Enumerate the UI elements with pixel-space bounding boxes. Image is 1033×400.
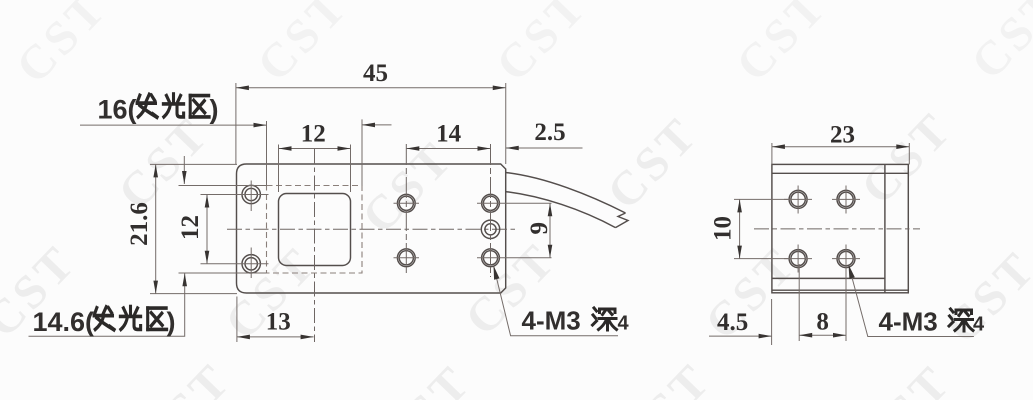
right column centerline <box>490 144 492 277</box>
right view body <box>772 164 908 292</box>
dimension 16(发光区) <box>80 94 392 185</box>
svg-text:CST: CST <box>486 0 597 92</box>
dimension 2.5 <box>506 119 583 150</box>
right view M3 hole bottom-left <box>784 245 812 273</box>
M3 hole middle column top <box>394 194 420 212</box>
dimension 13 <box>237 297 314 343</box>
svg-text:CST: CST <box>610 353 721 400</box>
svg-text:4: 4 <box>618 313 630 335</box>
dimension 45 <box>236 60 506 164</box>
dimension 14.6(发光区) <box>29 156 267 337</box>
dimension 9 <box>477 203 553 257</box>
left view sensor body <box>237 164 506 293</box>
M3 hole right column top <box>482 194 500 212</box>
M3 hole right column bottom <box>482 249 500 267</box>
right view M3 hole top-left <box>784 186 812 214</box>
svg-text:4-M3: 4-M3 <box>879 307 938 337</box>
right view top band line <box>772 172 908 174</box>
svg-text:12: 12 <box>177 215 204 240</box>
svg-text:14: 14 <box>436 121 462 148</box>
M3 hole middle column bottom <box>394 249 420 267</box>
dimension 8 <box>799 264 846 341</box>
svg-text:CST: CST <box>726 0 837 92</box>
svg-text:45: 45 <box>363 60 388 87</box>
middle column centerline <box>405 144 407 275</box>
svg-text:CST: CST <box>851 102 962 215</box>
cable exit hole right column middle <box>481 220 499 238</box>
right view inner vertical line <box>884 164 886 292</box>
svg-text:9: 9 <box>526 222 553 235</box>
lens rounded rectangle <box>279 194 351 266</box>
svg-text:): ) <box>210 95 219 125</box>
dimension 21.6 <box>126 164 237 293</box>
dimension 14 <box>406 121 490 151</box>
right view bottom band line <box>772 289 908 291</box>
svg-text:23: 23 <box>830 122 855 149</box>
svg-text:CST: CST <box>130 353 241 400</box>
dimension 4.5 <box>709 299 772 345</box>
svg-text:): ) <box>167 307 176 337</box>
svg-text:CST: CST <box>247 0 358 92</box>
svg-text:4.5: 4.5 <box>717 309 748 336</box>
dimension 12 top <box>279 121 351 193</box>
svg-text:CST: CST <box>6 0 117 94</box>
svg-text:14.6(: 14.6( <box>33 307 95 337</box>
svg-text:CST: CST <box>961 0 1033 90</box>
right view M3 hole top-right <box>832 186 860 214</box>
cable <box>506 173 628 228</box>
svg-text:21.6: 21.6 <box>126 202 153 246</box>
svg-text:CST: CST <box>352 131 463 244</box>
right view bottom step line <box>772 277 885 279</box>
svg-text:4-M3: 4-M3 <box>522 306 581 336</box>
mounting hole bottom-left <box>201 248 269 279</box>
dimension 10 <box>710 199 790 258</box>
svg-text:8: 8 <box>816 308 829 335</box>
dimension 12 left <box>177 195 209 264</box>
svg-text:13: 13 <box>266 309 291 336</box>
svg-text:12: 12 <box>301 121 326 148</box>
svg-text:10: 10 <box>710 216 737 241</box>
horizontal centerline of body <box>227 228 518 230</box>
right view M3 hole bottom-right <box>832 245 860 273</box>
vertical centerline of lens <box>314 149 316 342</box>
svg-text:CST: CST <box>370 355 481 400</box>
label 4-M3 深4 left <box>494 266 630 336</box>
svg-text:16(: 16( <box>98 95 137 125</box>
svg-text:2.5: 2.5 <box>534 119 565 146</box>
right view horizontal centerline <box>754 228 920 230</box>
svg-text:CST: CST <box>850 355 961 400</box>
mounting hole top-left <box>201 181 269 212</box>
label 4-M3 深4 right <box>849 265 986 337</box>
dimension 23 <box>772 122 909 165</box>
light emitting area dashed rectangle <box>267 186 363 274</box>
svg-text:CST: CST <box>597 107 708 220</box>
svg-text:4: 4 <box>973 314 985 336</box>
